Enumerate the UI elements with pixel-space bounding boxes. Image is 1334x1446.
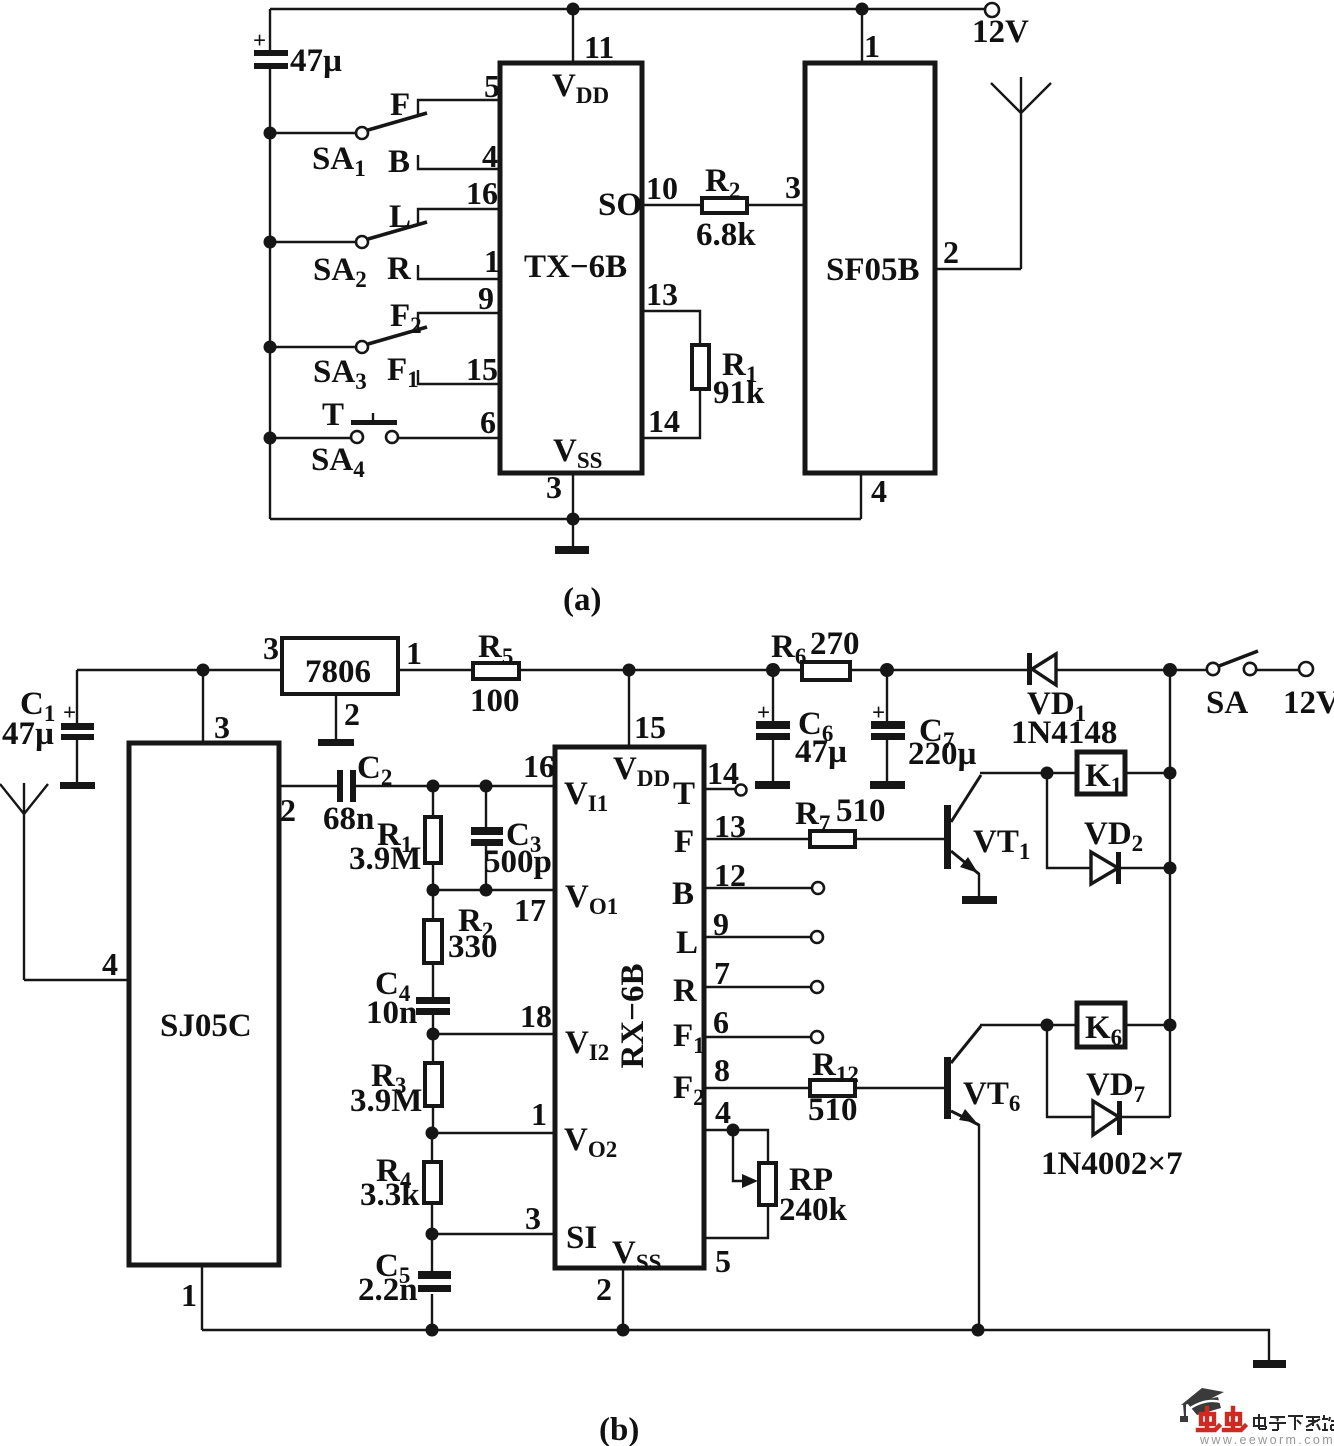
node: pin 4 junction <box>727 1124 740 1137</box>
svg-text:270: 270 <box>810 626 860 662</box>
wire: L contact to pin 16 <box>389 175 500 235</box>
wire: pin 17 net <box>433 890 555 928</box>
svg-text:510: 510 <box>836 793 886 829</box>
svg-text:18: 18 <box>520 998 552 1034</box>
svg-text:10n: 10n <box>366 995 417 1031</box>
pin 3 stub SJ05C <box>203 670 230 745</box>
svg-text:16: 16 <box>466 175 498 211</box>
svg-text:47µ: 47µ <box>795 734 847 770</box>
wire: pin 18 net <box>433 998 555 1034</box>
pin 1 stub SJ05C <box>181 1265 202 1330</box>
IC U5 RX-6B <box>555 747 705 1275</box>
svg-text:15: 15 <box>634 709 666 745</box>
wire: VT1 collector to K1 <box>980 772 1077 774</box>
resistor R1 91k (a) <box>642 276 765 439</box>
svg-text:SF05B: SF05B <box>826 252 920 288</box>
svg-text:10: 10 <box>646 170 678 206</box>
svg-text:4: 4 <box>102 946 118 982</box>
svg-text:F: F <box>390 87 410 123</box>
antenna (b) <box>0 783 48 980</box>
wire: pin 3 SI net <box>432 1200 555 1236</box>
svg-text:SO: SO <box>598 187 642 223</box>
node: K1 right on rail <box>1164 767 1177 780</box>
svg-text:14: 14 <box>707 755 739 791</box>
svg-text:www.eeworm.com: www.eeworm.com <box>1199 1433 1334 1446</box>
resistor R3 3.9M <box>350 1034 442 1133</box>
svg-text:7806: 7806 <box>305 654 371 690</box>
node: VD2 right on rail <box>1164 862 1177 875</box>
pin 2 stub RX-6B <box>596 1268 623 1330</box>
svg-text:3.3k: 3.3k <box>360 1177 420 1213</box>
relay K6 <box>1077 1003 1170 1050</box>
svg-text:1: 1 <box>181 1277 197 1313</box>
terminal 12V (b) <box>1283 662 1334 721</box>
svg-text:47µ: 47µ <box>290 43 342 79</box>
node: rail at C6 <box>766 663 780 677</box>
svg-text:L: L <box>676 925 698 961</box>
svg-text:+: + <box>872 700 885 725</box>
node: K6 right on rail <box>1164 1019 1177 1032</box>
svg-text:1: 1 <box>864 28 880 64</box>
svg-text:+: + <box>253 28 266 53</box>
node: R1/R2 junction <box>427 884 440 897</box>
svg-text:+: + <box>63 700 76 725</box>
pin 6 F1 stub open <box>704 1004 823 1043</box>
node: rail at RX-6B pin 15 <box>623 664 636 677</box>
wire: pin 1 net <box>432 1096 555 1133</box>
svg-text:12V: 12V <box>1283 685 1334 721</box>
node: bottom rail ground <box>567 513 580 526</box>
pin 15 stub RX-6B <box>629 670 666 747</box>
node: R3/R4 junction <box>426 1127 439 1140</box>
svg-text:3.9M: 3.9M <box>350 1083 422 1119</box>
wire: B contact to pin 4 <box>388 138 500 180</box>
capacitor 47u (a) <box>253 28 342 79</box>
watermark logo text 虫虫 <box>1198 1408 1245 1430</box>
pin 2 wire SF05B <box>935 234 1021 270</box>
node: top rail at SF05B pin1 <box>856 3 869 16</box>
svg-text:16: 16 <box>523 748 555 784</box>
transistor VT6 <box>944 1026 1020 1330</box>
resistor R12 510 <box>704 1047 944 1128</box>
node: rail at right power rail <box>1163 663 1177 677</box>
svg-text:1: 1 <box>406 635 422 671</box>
node: rail at SJ05C pin3 <box>197 664 210 677</box>
pin 11 stub <box>573 9 614 65</box>
pin 4 wire to RP <box>704 1094 768 1163</box>
wire: top supply rail (a) <box>270 8 985 10</box>
node: bottom rail at VT6 emitter <box>972 1324 985 1337</box>
svg-text:3.9M: 3.9M <box>349 841 421 877</box>
svg-text:13: 13 <box>714 808 746 844</box>
svg-text:T: T <box>322 397 344 433</box>
svg-text:9: 9 <box>478 280 494 316</box>
resistor R2 330 (b) <box>424 890 498 998</box>
wire: bottom ground rail (b) <box>202 1330 1269 1361</box>
svg-text:TX−6B: TX−6B <box>524 249 627 285</box>
ground (a) <box>555 519 589 554</box>
svg-text:+: + <box>757 700 770 725</box>
wire: R contact to pin 1 <box>387 243 500 287</box>
svg-text:13: 13 <box>646 276 678 312</box>
pin 3 stub + label <box>546 469 573 519</box>
svg-text:(b): (b) <box>599 1412 639 1446</box>
pin 12 B stub open <box>704 857 824 894</box>
pin 1 stub SF05B <box>862 9 880 64</box>
svg-text:1N4002×7: 1N4002×7 <box>1041 1146 1183 1182</box>
svg-text:1N4148: 1N4148 <box>1011 715 1117 751</box>
resistor R1 3.9M (b) <box>349 786 441 890</box>
node: C3 bottom junction <box>480 884 493 897</box>
pin 14 T stub with open end <box>704 755 747 796</box>
svg-text:T: T <box>673 776 695 812</box>
svg-text:(a): (a) <box>563 582 601 618</box>
svg-text:6: 6 <box>713 1004 729 1040</box>
wire: left vertical rail (a) <box>269 9 271 519</box>
svg-text:B: B <box>388 144 410 180</box>
wire: pin 16 net <box>433 748 555 786</box>
svg-text:68n: 68n <box>323 801 374 837</box>
diode VD7 <box>1041 1025 1183 1182</box>
svg-text:1: 1 <box>484 243 500 279</box>
svg-text:2.2n: 2.2n <box>358 1272 418 1308</box>
svg-text:2: 2 <box>943 234 959 270</box>
svg-text:91k: 91k <box>713 375 765 411</box>
node: bottom rail at pin 2 <box>617 1324 630 1337</box>
capacitor C1 47u <box>2 670 94 783</box>
node: R4/C5 junction <box>426 1228 439 1241</box>
resistor R7 510 <box>704 793 944 847</box>
watermark logo text dianzi xiazaizhan <box>1254 1414 1334 1430</box>
wire: F1 contact to pin 15 <box>387 351 500 392</box>
svg-text:5: 5 <box>484 68 500 104</box>
svg-text:SA: SA <box>1206 685 1248 721</box>
pushbutton SA4 T <box>264 397 501 482</box>
ground: VT1 emitter <box>962 896 997 904</box>
svg-text:100: 100 <box>470 683 520 719</box>
ground: C7 bottom bar <box>870 781 905 789</box>
wire: F2 contact to pin 9 <box>390 280 500 338</box>
antenna (a) <box>991 77 1051 269</box>
switch SA (b) <box>1206 651 1258 721</box>
svg-text:F: F <box>674 824 694 860</box>
svg-text:12V: 12V <box>972 14 1029 50</box>
wire: F contact to pin 5 <box>390 68 500 123</box>
node: C2/R1 junction <box>427 780 440 793</box>
svg-text:8: 8 <box>714 1052 730 1088</box>
capacitor C6 47u <box>756 670 847 782</box>
wire: right power rail vertical <box>1169 670 1171 1117</box>
svg-text:47µ: 47µ <box>2 716 54 752</box>
svg-text:9: 9 <box>713 906 729 942</box>
IC U1 TX-6B <box>500 63 642 473</box>
transistor VT1 <box>944 775 1030 897</box>
wire: bottom rail (a) <box>270 518 861 520</box>
ground: C6 bottom bar <box>755 781 790 789</box>
ground: bottom right bar <box>1253 1360 1286 1368</box>
regulator U4 7806 <box>263 630 422 694</box>
terminal 12V (a) <box>972 3 1029 50</box>
svg-text:17: 17 <box>514 892 546 928</box>
svg-text:5: 5 <box>715 1243 731 1279</box>
IC U3 SJ05C <box>129 743 279 1265</box>
node: C3 top junction <box>480 780 493 793</box>
svg-text:RX−6B: RX−6B <box>615 964 651 1069</box>
svg-text:4: 4 <box>871 473 887 509</box>
svg-text:4: 4 <box>482 138 498 174</box>
potentiometer RP 240k <box>704 1130 848 1279</box>
wire: VT6 collector to K6 <box>980 1024 1077 1026</box>
svg-text:1: 1 <box>531 1096 547 1132</box>
svg-text:R: R <box>387 251 412 287</box>
svg-text:2: 2 <box>280 792 296 828</box>
svg-text:R: R <box>673 973 698 1009</box>
resistor R2 6.8k (a) <box>642 163 805 253</box>
ground: 7806 pin 2 <box>318 694 360 746</box>
svg-text:2: 2 <box>596 1271 612 1307</box>
svg-text:15: 15 <box>466 351 498 387</box>
wire: antenna to SJ05C pin 4 <box>24 946 129 982</box>
svg-text:6: 6 <box>480 404 496 440</box>
IC U2 SF05B <box>805 63 935 473</box>
capacitor C3 500p <box>471 786 552 890</box>
svg-text:510: 510 <box>808 1092 858 1128</box>
node: bottom rail at C5 <box>426 1324 439 1337</box>
relay K1 <box>1077 752 1170 798</box>
svg-text:2: 2 <box>344 696 360 732</box>
svg-text:L: L <box>389 199 411 235</box>
pin 4 stub SF05B <box>861 473 887 519</box>
diode VD1 1N4148 <box>1011 653 1117 751</box>
svg-text:330: 330 <box>448 929 498 965</box>
capacitor C7 220u <box>871 670 977 782</box>
svg-text:3: 3 <box>785 169 801 205</box>
wire: top supply rail (b) <box>77 669 1299 671</box>
svg-text:6.8k: 6.8k <box>696 217 756 253</box>
svg-text:14: 14 <box>648 403 680 439</box>
svg-text:SJ05C: SJ05C <box>160 1008 252 1044</box>
node: rail at C7 <box>880 663 894 677</box>
capacitor C2 68n <box>279 750 433 837</box>
node: K1 left <box>1041 767 1054 780</box>
svg-text:11: 11 <box>584 29 614 65</box>
svg-text:7: 7 <box>714 955 730 991</box>
svg-text:12: 12 <box>714 857 746 893</box>
ground: C1 bottom bar <box>60 782 95 789</box>
diode VD2 <box>1047 773 1170 884</box>
svg-text:500p: 500p <box>484 844 552 880</box>
svg-text:3: 3 <box>525 1200 541 1236</box>
resistor R5 100 <box>470 629 520 719</box>
pin 9 L stub open <box>704 906 823 943</box>
watermark logo graduation cap <box>1180 1388 1224 1422</box>
switch SA1 <box>264 113 428 181</box>
switch SA2 <box>264 222 428 292</box>
svg-text:3: 3 <box>214 709 230 745</box>
svg-text:220µ: 220µ <box>908 736 977 772</box>
node: top rail at pin11 <box>567 3 580 16</box>
svg-text:B: B <box>672 876 694 912</box>
svg-text:3: 3 <box>546 469 562 505</box>
svg-text:4: 4 <box>715 1094 731 1130</box>
pin 7 R stub open <box>704 955 823 993</box>
svg-text:SI: SI <box>566 1220 597 1256</box>
node: K6 left <box>1041 1019 1054 1032</box>
svg-text:3: 3 <box>263 630 279 666</box>
switch SA3 <box>264 327 428 394</box>
svg-text:240k: 240k <box>779 1192 848 1228</box>
resistor R4 3.3k <box>360 1133 441 1234</box>
capacitor C5 2.2n <box>358 1234 451 1330</box>
capacitor C4 10n <box>366 966 450 1034</box>
node: C4/R3 junction <box>427 1028 440 1041</box>
resistor R6 270 <box>771 626 860 680</box>
